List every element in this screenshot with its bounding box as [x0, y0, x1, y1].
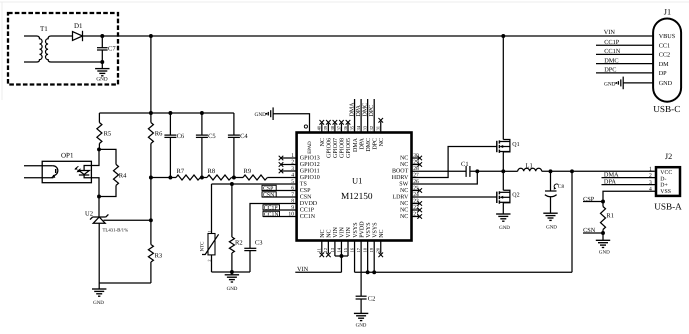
- thermistor NTC: [200, 231, 219, 272]
- ground at J1: [604, 77, 654, 90]
- transformer T1: [24, 25, 102, 62]
- svg-text:USB-C: USB-C: [653, 104, 680, 114]
- svg-text:CC1N: CC1N: [300, 214, 316, 220]
- wire GPIO10 line segment: [151, 177, 176, 179]
- capacitor C3: [244, 240, 262, 272]
- svg-text:J2: J2: [665, 152, 672, 161]
- wire L1 to J2 VCC: [542, 170, 655, 172]
- wire U2 ground rail: [99, 282, 151, 284]
- svg-text:10: 10: [288, 212, 294, 218]
- net label CSN (pin7): [262, 192, 297, 199]
- transistor Q2: [497, 171, 520, 214]
- svg-text:12: 12: [323, 247, 328, 252]
- U1 left pin numbers 1-10: [288, 153, 294, 218]
- svg-text:VIN: VIN: [346, 226, 352, 237]
- svg-text:NC: NC: [320, 229, 326, 237]
- wire R9 to pin4: [267, 177, 296, 179]
- wire opto cathode down to U2: [91, 178, 99, 217]
- svg-text:CC2: CC2: [659, 52, 670, 59]
- wire U2 ref to R3 node: [104, 219, 151, 221]
- resistor R9: [243, 168, 267, 180]
- dashed isolation box: [8, 13, 118, 85]
- pin12 NC stub: [327, 241, 329, 254]
- capacitor C8: [545, 171, 565, 213]
- junction SW node: [501, 169, 505, 173]
- svg-text:M12150: M12150: [341, 192, 373, 202]
- svg-text:NTC: NTC: [200, 241, 206, 252]
- svg-text:GPIO07: GPIO07: [333, 138, 339, 158]
- pin1 NC stub: [281, 157, 297, 159]
- svg-text:HDRV: HDRV: [392, 175, 409, 181]
- svg-text:GND: GND: [604, 81, 616, 87]
- pin20 NC stub: [380, 241, 382, 254]
- wire PVDD pin17 drop to C2: [360, 241, 362, 297]
- svg-text:37: 37: [336, 125, 341, 130]
- svg-text:CC1N: CC1N: [264, 212, 280, 218]
- U1 left pin names pins 1-10: [300, 156, 320, 221]
- junction rail R2: [230, 270, 234, 274]
- U1 right pin names pins 21-30: [392, 156, 409, 221]
- pin29 NC stub: [412, 164, 420, 166]
- svg-text:C1: C1: [461, 161, 469, 168]
- svg-text:7: 7: [291, 192, 294, 198]
- inductor L1: [503, 163, 541, 172]
- junction pin19: [372, 270, 376, 274]
- pin3 NC stub: [281, 170, 297, 172]
- pin11 NC stub: [321, 241, 323, 254]
- junction TS R2: [230, 182, 234, 186]
- wire DPA riser: [360, 99, 362, 133]
- shunt regulator U2 TL431: [85, 211, 128, 284]
- svg-text:19: 19: [369, 247, 374, 252]
- ground under C2: [354, 313, 368, 328]
- pin37 NC stub: [340, 124, 342, 133]
- EPAD pin 41 indicator circle: [304, 125, 307, 128]
- svg-text:USB-A: USB-A: [654, 201, 682, 211]
- wire TS to NTC: [211, 184, 213, 234]
- svg-text:DMA: DMA: [353, 137, 359, 152]
- svg-text:CC1P: CC1P: [604, 39, 620, 46]
- junction CSP: [601, 200, 605, 204]
- connector J2 USB-A: [649, 152, 682, 211]
- ground under U2: [92, 283, 106, 306]
- svg-text:D1: D1: [74, 22, 83, 30]
- svg-text:GND: GND: [599, 250, 610, 256]
- svg-text:36: 36: [343, 125, 348, 130]
- svg-text:C4: C4: [240, 133, 248, 140]
- svg-text:4: 4: [291, 173, 294, 179]
- svg-text:NC: NC: [400, 214, 408, 220]
- pin2 NC stub: [281, 164, 297, 166]
- svg-text:DPA: DPA: [356, 104, 362, 116]
- svg-text:VSYS: VSYS: [366, 222, 372, 237]
- svg-text:R3: R3: [155, 253, 163, 260]
- svg-text:1: 1: [206, 231, 211, 233]
- optocoupler OP1: [24, 151, 91, 182]
- svg-text:DM: DM: [659, 61, 669, 68]
- junction C8: [549, 169, 553, 173]
- svg-text:D-: D-: [660, 176, 666, 182]
- wire secondary bottom node: [100, 60, 104, 64]
- ground to EPAD: [255, 107, 310, 132]
- svg-text:VIN: VIN: [333, 226, 339, 237]
- svg-text:GND: GND: [659, 80, 673, 87]
- svg-text:R5: R5: [104, 131, 112, 138]
- svg-text:DMC: DMC: [363, 103, 369, 117]
- svg-text:DVDD: DVDD: [300, 201, 318, 207]
- wire R7 to R8: [200, 177, 207, 179]
- svg-text:35: 35: [349, 125, 354, 130]
- U1 bottom pin names pins 11-20: [320, 221, 385, 238]
- wire VIN drop: [340, 256, 342, 272]
- svg-text:Q1: Q1: [512, 142, 519, 148]
- svg-text:NC: NC: [379, 229, 385, 237]
- wire VSYS pin18 drop: [367, 241, 369, 273]
- svg-text:GPIO10: GPIO10: [300, 175, 320, 181]
- resistor R2: [229, 237, 242, 272]
- svg-text:R2: R2: [235, 240, 243, 247]
- pin38 NC stub: [334, 124, 336, 133]
- wire SW pin: [412, 171, 478, 184]
- svg-text:VSYS: VSYS: [372, 222, 378, 237]
- svg-text:NC: NC: [400, 188, 408, 194]
- resistor R6: [148, 113, 163, 178]
- svg-text:C2: C2: [368, 296, 376, 303]
- wire DVDD line: [250, 204, 297, 249]
- junction bus C5: [200, 111, 204, 115]
- svg-text:CC1: CC1: [659, 42, 670, 49]
- junction rail Q1 drain: [501, 34, 505, 38]
- wire DPC to J1: [596, 72, 654, 74]
- svg-text:GPIO08: GPIO08: [340, 138, 346, 158]
- svg-text:NC: NC: [320, 138, 326, 146]
- svg-text:LDRV: LDRV: [392, 195, 409, 201]
- svg-text:Q2: Q2: [512, 193, 519, 199]
- wire C1 to SW node: [470, 170, 503, 172]
- capacitor C2: [356, 296, 376, 314]
- svg-text:GPIO11: GPIO11: [300, 169, 320, 175]
- U1 body outline: [297, 133, 412, 241]
- svg-text:34: 34: [356, 125, 361, 130]
- svg-text:5: 5: [291, 179, 294, 185]
- svg-text:VSYS: VSYS: [353, 222, 359, 237]
- svg-text:DPC: DPC: [369, 105, 375, 117]
- junction R4 bottom: [97, 195, 101, 199]
- svg-text:U2: U2: [85, 211, 93, 218]
- svg-text:EPAD: EPAD: [307, 141, 313, 154]
- wire bias bus: [99, 112, 234, 114]
- svg-text:SW: SW: [399, 182, 408, 188]
- svg-text:GPIO06: GPIO06: [327, 138, 333, 158]
- junction bus R6: [149, 111, 153, 115]
- svg-text:VIN: VIN: [340, 226, 346, 237]
- svg-text:9: 9: [291, 205, 294, 211]
- wire DMC to J1: [596, 63, 654, 65]
- pin21 NC stub: [412, 216, 420, 218]
- pin25 NC stub: [412, 190, 420, 192]
- svg-text:GND: GND: [356, 323, 367, 329]
- wire NTC/R2/C3 ground rail: [212, 271, 251, 273]
- U1 right pin numbers 21-30: [413, 153, 419, 218]
- svg-text:CC1N: CC1N: [604, 48, 621, 55]
- svg-text:VSS: VSS: [660, 189, 671, 195]
- svg-text:NC: NC: [400, 201, 408, 207]
- pin31 NC stub: [380, 122, 382, 133]
- svg-text:33: 33: [363, 125, 368, 130]
- svg-text:18: 18: [363, 247, 368, 252]
- svg-text:DP: DP: [659, 70, 667, 77]
- wire CSP: [583, 201, 603, 203]
- svg-text:GPIO13: GPIO13: [300, 156, 320, 162]
- svg-text:C7: C7: [108, 46, 116, 53]
- wire DMA riser: [354, 99, 356, 133]
- wire opto anode: [91, 149, 99, 165]
- svg-text:1: 1: [649, 167, 652, 173]
- svg-text:R7: R7: [177, 168, 185, 175]
- wire CC1P to J1: [596, 44, 654, 46]
- svg-text:R6: R6: [155, 131, 163, 138]
- svg-text:GPIO12: GPIO12: [300, 162, 320, 168]
- svg-text:VIN: VIN: [297, 266, 309, 273]
- svg-text:TS: TS: [300, 182, 307, 188]
- junction C6 node: [168, 176, 172, 180]
- svg-text:BOOT: BOOT: [392, 169, 409, 175]
- junction divider R6 node: [149, 176, 153, 180]
- svg-text:14: 14: [336, 247, 341, 252]
- pin39 NC stub: [327, 124, 329, 133]
- net label CC1P (pin9): [263, 205, 297, 212]
- svg-text:U1: U1: [352, 176, 362, 186]
- transistor Q1: [497, 140, 520, 172]
- junction R5/R4/opto anode: [97, 147, 101, 151]
- wire TS to R2: [231, 184, 233, 237]
- svg-text:39: 39: [323, 125, 328, 130]
- capacitor C7: [97, 36, 116, 62]
- svg-text:CC1P: CC1P: [264, 206, 278, 212]
- junction rail to divider: [149, 34, 153, 38]
- svg-text:DPC: DPC: [372, 138, 378, 150]
- svg-text:NC: NC: [379, 138, 385, 146]
- wire VSYS rail: [355, 271, 572, 273]
- wire BOOT to C1: [412, 170, 467, 172]
- wire CSN: [583, 232, 603, 234]
- wire DMA to J2: [602, 177, 657, 179]
- wire VIN pins 13-15 tie: [335, 241, 348, 257]
- capacitor C1: [461, 161, 470, 177]
- U1 top pin numbers 31-40: [317, 125, 381, 130]
- sheet frame: [0, 1, 689, 3]
- svg-text:PVDD: PVDD: [359, 221, 365, 238]
- svg-text:C5: C5: [208, 133, 216, 140]
- svg-text:CSN: CSN: [300, 195, 312, 201]
- ground under C7: [95, 62, 109, 82]
- svg-text:20: 20: [376, 247, 381, 252]
- svg-text:GND: GND: [227, 286, 238, 292]
- ground under R1: [596, 240, 610, 255]
- wire VIN rail bottom: [295, 271, 341, 273]
- wire CC1N to J1: [596, 53, 654, 55]
- wire VSYS pin16 drop: [354, 241, 356, 273]
- resistor R7: [176, 168, 200, 180]
- svg-text:GND: GND: [255, 112, 267, 118]
- junction VSYS riser: [570, 169, 574, 173]
- svg-text:C8: C8: [558, 184, 564, 190]
- svg-text:L1: L1: [526, 163, 533, 170]
- svg-text:2: 2: [206, 260, 211, 262]
- junction CSN: [601, 231, 605, 235]
- wire VSYS riser: [571, 171, 573, 272]
- pin40 NC stub: [321, 124, 323, 133]
- wire VSS pin4 down: [603, 191, 656, 206]
- svg-text:T1: T1: [40, 25, 48, 33]
- svg-text:GPIO05: GPIO05: [346, 138, 352, 158]
- svg-text:GND: GND: [93, 300, 104, 306]
- svg-text:R4: R4: [119, 173, 127, 180]
- resistor R4: [99, 149, 127, 196]
- svg-text:VIN: VIN: [604, 29, 616, 36]
- svg-text:GND: GND: [96, 76, 107, 82]
- svg-text:OP1: OP1: [61, 151, 74, 159]
- pin30 NC stub: [412, 157, 420, 159]
- pin23 NC stub: [412, 203, 420, 205]
- junction C4 node: [232, 176, 236, 180]
- svg-text:VBUS: VBUS: [659, 33, 676, 40]
- capacitor C5: [196, 113, 216, 178]
- svg-text:GND: GND: [546, 225, 557, 231]
- svg-text:DMA: DMA: [604, 172, 619, 179]
- junction bus C6: [168, 111, 172, 115]
- svg-text:8: 8: [291, 199, 294, 205]
- wire VIN rail (D1 to USB-C VBUS): [83, 35, 654, 37]
- connector J1 USB-C: [653, 8, 681, 114]
- wire R8 to R9: [231, 177, 243, 179]
- svg-text:R9: R9: [244, 168, 252, 175]
- resistor R5: [97, 113, 111, 149]
- svg-text:15: 15: [343, 247, 348, 252]
- svg-text:16: 16: [349, 247, 354, 252]
- svg-text:VCC: VCC: [660, 170, 672, 176]
- svg-text:NC: NC: [400, 156, 408, 162]
- junction pin18: [366, 270, 370, 274]
- svg-text:NC: NC: [400, 208, 408, 214]
- svg-text:C6: C6: [177, 133, 185, 140]
- junction ref/R3: [149, 218, 153, 222]
- svg-text:GND: GND: [499, 225, 510, 231]
- svg-text:NC: NC: [400, 162, 408, 168]
- wire DMC riser: [367, 99, 369, 133]
- ground under Q2: [496, 214, 510, 231]
- svg-text:6: 6: [291, 186, 294, 192]
- svg-text:D+: D+: [660, 183, 667, 189]
- diode D1: [73, 22, 84, 41]
- svg-text:DPA: DPA: [604, 179, 616, 186]
- svg-text:32: 32: [369, 125, 374, 130]
- net label CSP (pin6): [262, 185, 297, 192]
- U1 bottom pin numbers 11-20: [317, 247, 381, 252]
- svg-text:40: 40: [317, 125, 322, 130]
- svg-text:13: 13: [330, 247, 335, 252]
- capacitor C6: [164, 113, 185, 178]
- svg-text:DMC: DMC: [366, 138, 372, 152]
- ground under R2: [225, 272, 239, 292]
- net label CC1N (pin10): [263, 211, 297, 218]
- wire rail down to bias bus: [150, 36, 152, 113]
- svg-text:11: 11: [317, 247, 322, 252]
- svg-text:CSN: CSN: [263, 193, 275, 199]
- svg-text:J1: J1: [664, 8, 671, 17]
- junction C5 node: [200, 176, 204, 180]
- U1 top pin names pins 31-40: [320, 137, 385, 158]
- junction C7 top: [100, 34, 104, 38]
- wire DPA to J2: [602, 184, 657, 186]
- wire DPC riser: [373, 99, 375, 133]
- capacitor C4: [228, 113, 249, 178]
- svg-text:DPA: DPA: [359, 137, 365, 149]
- wire LDRV to Q2 gate: [412, 196, 497, 198]
- wire HDRV to Q1 gate: [412, 147, 497, 178]
- svg-text:38: 38: [330, 125, 335, 130]
- resistor R3: [148, 178, 162, 284]
- wire VSYS pin19 drop: [373, 241, 375, 273]
- svg-text:DMA: DMA: [349, 102, 355, 117]
- ground under C8: [543, 213, 557, 230]
- svg-text:17: 17: [356, 247, 361, 252]
- svg-text:DMC: DMC: [604, 57, 618, 64]
- svg-text:C3: C3: [255, 240, 263, 247]
- svg-text:R8: R8: [208, 168, 216, 175]
- resistor R1: [601, 207, 614, 241]
- svg-text:31: 31: [376, 125, 381, 130]
- svg-text:CSP: CSP: [300, 188, 311, 194]
- wire Q1 drain: [502, 36, 504, 140]
- resistor R8: [207, 168, 231, 180]
- pin36 NC stub: [347, 124, 349, 133]
- svg-text:CSP: CSP: [263, 186, 273, 192]
- svg-text:NC: NC: [327, 229, 333, 237]
- svg-text:DPC: DPC: [604, 67, 616, 74]
- svg-text:TL431-B/1%: TL431-B/1%: [103, 227, 129, 233]
- svg-text:R1: R1: [606, 213, 614, 220]
- wire TS line: [212, 183, 297, 185]
- pin22 NC stub: [412, 209, 420, 211]
- svg-text:CC1P: CC1P: [300, 208, 315, 214]
- junction SW riser: [475, 169, 479, 173]
